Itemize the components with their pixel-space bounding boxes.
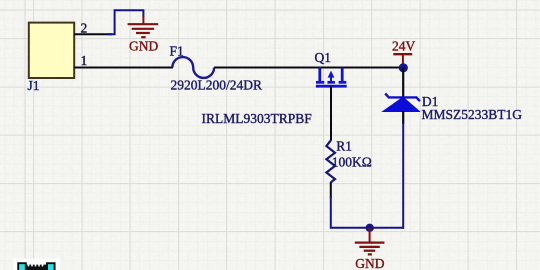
pin 1 of J1: [74, 53, 173, 68]
footprint preview (bottom-left, partially visible): [14, 259, 61, 270]
power port GND (bottom): [355, 228, 385, 270]
resistor R1: [326, 138, 371, 182]
connector J1: [28, 23, 75, 93]
fuse F1: [170, 44, 263, 93]
power port GND (top): [128, 16, 159, 53]
power port 24V: [392, 38, 416, 64]
svg-text:MMSZ5233BT1G: MMSZ5233BT1G: [422, 107, 523, 122]
svg-text:24V: 24V: [392, 38, 416, 53]
pin 2 of J1: [74, 21, 112, 36]
svg-text:GND: GND: [355, 256, 384, 270]
svg-text:2920L200/24DR: 2920L200/24DR: [171, 77, 263, 92]
svg-text:100KΩ: 100KΩ: [332, 155, 372, 170]
svg-text:Q1: Q1: [315, 50, 332, 65]
subtle paper noise overlay: [0, 0, 1, 1]
wire fuse to Q1 to 24V junction: [214, 67, 403, 69]
wire junction down to D1: [402, 68, 404, 97]
junction (bottom GND node): [366, 224, 374, 232]
wire pin2 to GND port: [108, 10, 143, 34]
transistor Q1: [202, 50, 347, 126]
wire R1 down to bottom node: [330, 182, 332, 198]
wire D1 anode down to bottom node: [402, 111, 404, 124]
svg-text:F1: F1: [170, 44, 184, 59]
svg-text:IRLML9303TRPBF: IRLML9303TRPBF: [202, 111, 313, 126]
diode D1 (zener): [384, 94, 523, 123]
svg-text:R1: R1: [336, 138, 352, 153]
svg-text:2: 2: [81, 21, 88, 36]
junction (24V node): [399, 63, 408, 72]
svg-text:GND: GND: [129, 38, 158, 53]
wire Q1 gate down to R1: [330, 86, 332, 140]
svg-text:J1: J1: [28, 78, 40, 93]
svg-text:1: 1: [81, 53, 88, 68]
